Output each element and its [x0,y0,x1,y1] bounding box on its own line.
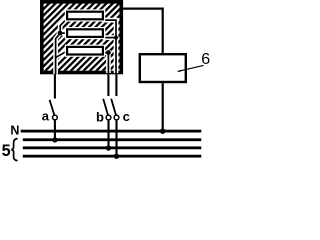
junction dot left bus [58,31,63,36]
wire right to switch b [103,53,109,74]
leader line 6 [177,65,204,72]
line N [21,130,202,133]
junction dot on N line [160,129,165,134]
junction dot switch a on L1 [52,137,57,142]
wire right to switch c [103,20,116,74]
switch a [50,74,58,139]
brace [11,139,17,161]
heating element 1 [65,9,105,21]
line L2 [23,146,202,149]
svg-text:5: 5 [2,142,11,160]
svg-text:b: b [96,109,104,124]
junction dot elem3 lead [106,50,111,55]
junction dot switch c on L3 [114,154,119,159]
wire box6 to N line [162,83,164,131]
box 6 (controller) [140,54,186,82]
furnace chamber (hatched box) [40,0,123,74]
wire furnace to box 6 [121,9,163,54]
switch b [103,74,111,148]
svg-text:c: c [123,109,130,124]
line L1 [23,138,202,141]
svg-text:6: 6 [201,51,210,68]
svg-text:a: a [42,109,50,124]
switch c [111,74,119,156]
wire left bus [56,19,67,74]
svg-text:N: N [10,124,19,138]
line L3 [23,155,202,158]
junction dot switch b on L2 [106,145,111,150]
junction dot elem2 lead [114,36,118,40]
heating element 3 [65,45,105,57]
heating element 2 [65,27,105,39]
